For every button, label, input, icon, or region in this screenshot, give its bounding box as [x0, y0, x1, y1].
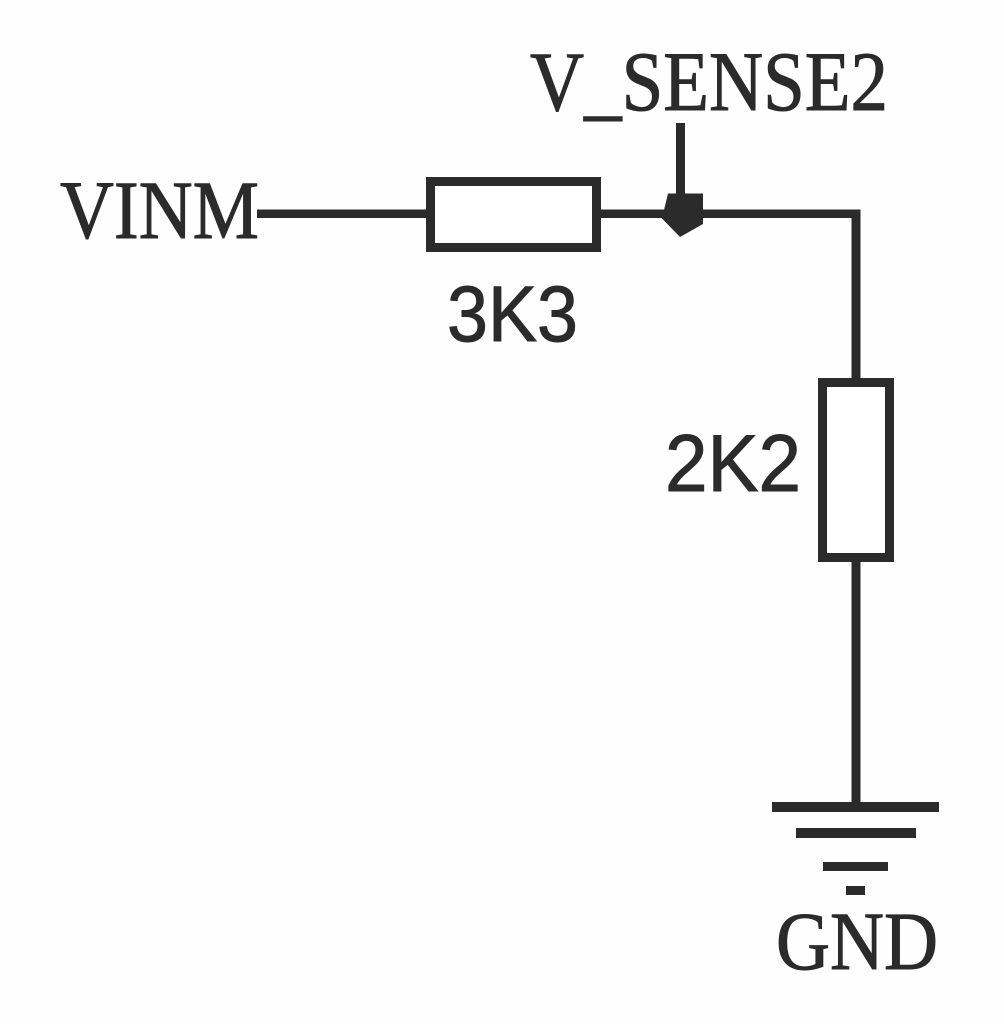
svg-text:GND: GND — [776, 895, 938, 987]
ground bar 2 — [796, 828, 916, 838]
wire R1 to corner — [601, 210, 861, 219]
ground bar 3 — [823, 862, 888, 871]
svg-text:3K3: 3K3 — [447, 269, 578, 358]
wire corner down to R2 — [852, 213, 861, 382]
junction node V_SENSE2 arrow — [662, 194, 703, 238]
svg-text:V_SENSE2: V_SENSE2 — [530, 35, 888, 129]
svg-text:VINM: VINM — [60, 164, 259, 256]
svg-text:2K2: 2K2 — [665, 419, 801, 509]
wire VINM to R1 — [257, 210, 430, 219]
ground bar 4 — [846, 886, 865, 895]
resistor R2 2K2 body — [823, 383, 890, 558]
resistor R1 3K3 body — [431, 182, 597, 248]
ground bar 1 — [772, 802, 939, 812]
wire R2 to ground — [852, 558, 861, 807]
wire V_SENSE2 stub — [676, 123, 685, 205]
